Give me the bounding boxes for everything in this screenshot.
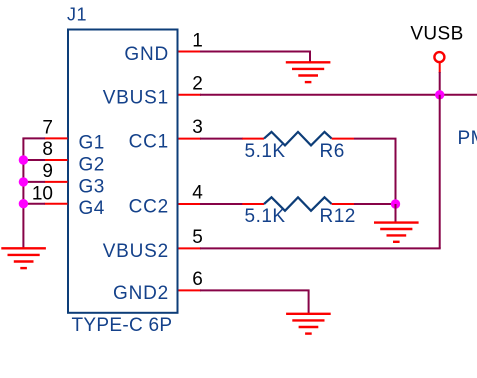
svg-text:CC2: CC2 bbox=[129, 197, 169, 218]
pin 2 VBUS1 (stub) bbox=[179, 94, 202, 96]
junction G4 bbox=[19, 199, 28, 208]
svg-text:PM: PM bbox=[458, 128, 477, 149]
pin 8 G2 (stub) bbox=[45, 159, 68, 161]
ground (CC pulldown) bbox=[374, 223, 419, 242]
svg-text:4: 4 bbox=[192, 183, 203, 204]
connector J1 body bbox=[68, 30, 178, 313]
wire VUSB stem bbox=[439, 63, 441, 95]
pin number 7 bbox=[42, 117, 53, 138]
pin name G1 bbox=[79, 132, 105, 153]
svg-text:TYPE-C 6P: TYPE-C 6P bbox=[72, 315, 173, 336]
wire VBUS1 net bbox=[200, 94, 477, 96]
wire VBUS2 net bbox=[200, 247, 441, 249]
pin 10 G4 (stub) bbox=[45, 203, 68, 205]
pin 1 GND (stub) bbox=[179, 51, 202, 53]
pin name GND bbox=[124, 44, 169, 65]
junction G3 bbox=[19, 177, 28, 186]
junction CC pulldown bbox=[391, 199, 400, 208]
junction VBUS1/VUSB bbox=[435, 90, 444, 99]
svg-text:10: 10 bbox=[32, 184, 53, 205]
wire pin4 to R12 bbox=[200, 203, 243, 205]
designator R12 bbox=[320, 206, 356, 227]
wire G2 row bbox=[23, 159, 45, 161]
svg-text:7: 7 bbox=[42, 117, 53, 138]
svg-text:GND: GND bbox=[124, 44, 169, 65]
svg-text:G2: G2 bbox=[79, 154, 105, 175]
pin 4 CC2 (stub) bbox=[179, 203, 202, 205]
pin number 3 bbox=[192, 117, 203, 138]
wire R12 to junction bbox=[354, 203, 396, 205]
wire junction to ground bbox=[395, 204, 397, 223]
pin 7 G1 (stub) bbox=[45, 137, 68, 139]
svg-text:VBUS2: VBUS2 bbox=[103, 241, 169, 262]
wire pin1 to ground bbox=[200, 52, 310, 64]
svg-text:5.1K: 5.1K bbox=[245, 141, 286, 162]
svg-text:6: 6 bbox=[192, 269, 203, 290]
svg-text:3: 3 bbox=[192, 117, 203, 138]
pin number 8 bbox=[42, 139, 53, 160]
pin number 4 bbox=[192, 183, 203, 204]
pin number 6 bbox=[192, 269, 203, 290]
designator R6 bbox=[320, 141, 345, 162]
pin name G2 bbox=[79, 154, 105, 175]
pin 9 G3 (stub) bbox=[45, 181, 68, 183]
wire G-pins bus vertical bbox=[22, 138, 24, 249]
pin number 1 bbox=[192, 30, 203, 51]
pin 5 VBUS2 (stub) bbox=[179, 247, 202, 249]
ground (G pins) bbox=[1, 248, 46, 268]
ground (pin 6 GND2) bbox=[286, 314, 331, 334]
pin name VBUS2 bbox=[103, 241, 169, 262]
pin number 10 bbox=[32, 184, 53, 205]
pin name CC1 bbox=[129, 131, 169, 152]
power port VUSB circle bbox=[434, 52, 444, 62]
pin number 5 bbox=[192, 227, 203, 248]
svg-text:CC1: CC1 bbox=[129, 131, 169, 152]
pin name VBUS1 bbox=[103, 87, 169, 108]
wire VBUS1 to VBUS2 vertical bbox=[439, 95, 441, 249]
designator J1 bbox=[67, 5, 87, 25]
svg-text:G1: G1 bbox=[79, 132, 105, 153]
value label TYPE-C 6P bbox=[72, 315, 173, 336]
pin 3 CC1 (stub) bbox=[179, 138, 202, 140]
wire pin6 to ground bbox=[200, 290, 309, 314]
svg-text:R12: R12 bbox=[320, 206, 356, 227]
net label PM (clipped at edge) bbox=[458, 128, 477, 149]
svg-text:2: 2 bbox=[192, 74, 203, 95]
ground (pin 1) bbox=[286, 62, 331, 82]
svg-text:VBUS1: VBUS1 bbox=[103, 87, 169, 108]
resistor R6 bbox=[242, 132, 354, 146]
pin number 9 bbox=[42, 161, 53, 182]
svg-text:R6: R6 bbox=[320, 141, 345, 162]
wire G4 row bbox=[23, 203, 45, 205]
svg-text:5: 5 bbox=[192, 227, 203, 248]
pin number 2 bbox=[192, 74, 203, 95]
pin name G3 bbox=[79, 176, 105, 197]
svg-text:8: 8 bbox=[42, 139, 53, 160]
svg-text:9: 9 bbox=[42, 161, 53, 182]
wire R6 to junction bbox=[354, 139, 396, 204]
pin name GND2 bbox=[113, 283, 169, 304]
svg-text:J1: J1 bbox=[67, 5, 87, 25]
svg-text:G4: G4 bbox=[79, 198, 105, 219]
value 5.1K (R12) bbox=[245, 206, 286, 227]
svg-text:GND2: GND2 bbox=[113, 283, 169, 304]
pin name CC2 bbox=[129, 197, 169, 218]
svg-text:1: 1 bbox=[192, 30, 203, 51]
svg-text:G3: G3 bbox=[79, 176, 105, 197]
resistor R12 bbox=[242, 197, 354, 211]
wire G3 row bbox=[23, 181, 45, 183]
junction G2 bbox=[19, 155, 28, 164]
pin name G4 bbox=[79, 198, 105, 219]
pin 6 GND2 (stub) bbox=[179, 289, 202, 291]
svg-text:VUSB: VUSB bbox=[410, 24, 463, 45]
net label VUSB bbox=[410, 24, 463, 45]
wire pin3 to R6 bbox=[200, 138, 243, 140]
value 5.1K (R6) bbox=[245, 141, 286, 162]
wire G1 row bbox=[22, 137, 45, 139]
svg-text:5.1K: 5.1K bbox=[245, 206, 286, 227]
